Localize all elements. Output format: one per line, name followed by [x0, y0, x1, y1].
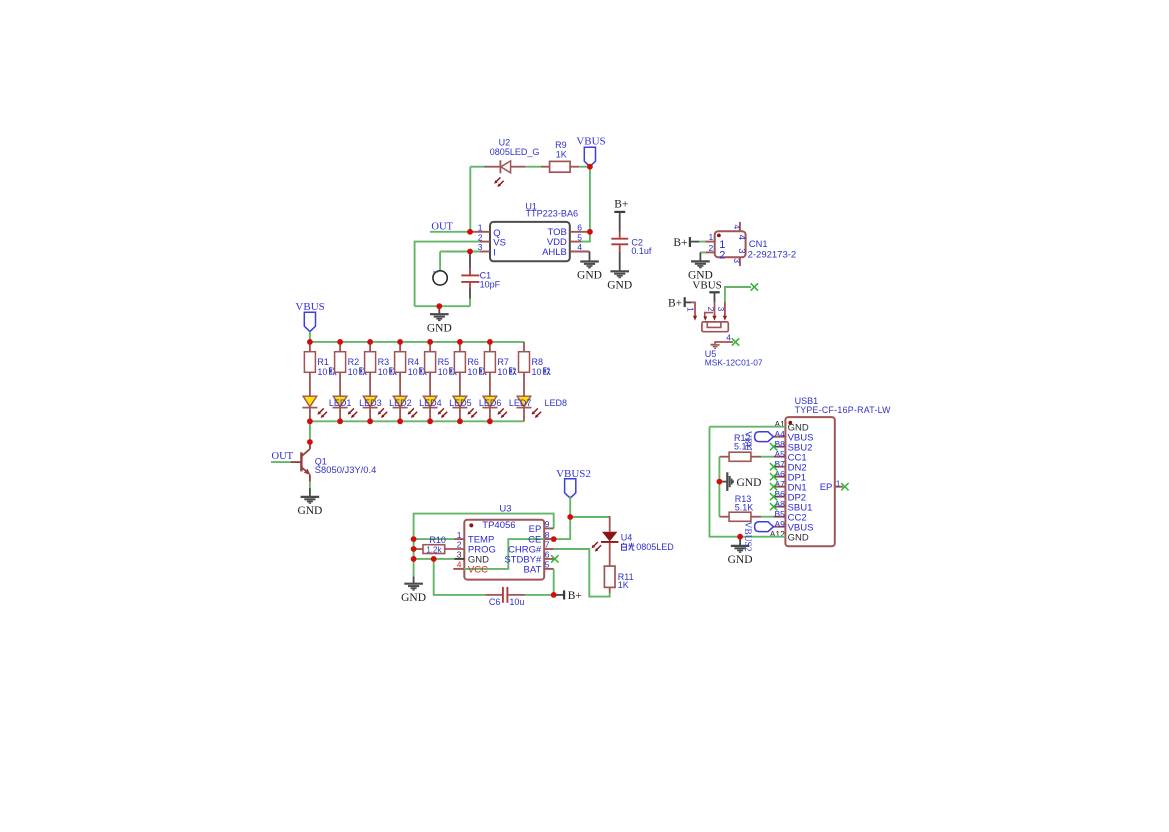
- svg-text:7: 7: [545, 540, 550, 550]
- svg-text:GND: GND: [728, 554, 753, 566]
- svg-text:2: 2: [457, 540, 462, 550]
- svg-text:EP: EP: [820, 482, 833, 493]
- svg-text:R7: R7: [497, 357, 509, 367]
- wire: OUT to base: [271, 461, 290, 463]
- LED7 emission arrows: [497, 408, 507, 418]
- svg-text:GND: GND: [577, 270, 602, 282]
- junction: [427, 418, 433, 424]
- svg-text:U3: U3: [499, 503, 511, 514]
- svg-text:U4: U4: [621, 532, 633, 542]
- resistor R9: [541, 161, 580, 172]
- no-connect X: [770, 463, 777, 470]
- junction: [307, 339, 313, 345]
- junction: [411, 536, 417, 542]
- U3 pin 7 CHRG#: [544, 548, 554, 550]
- USB1 pin A5: [773, 456, 785, 458]
- ground (CC rail, rotated): [719, 472, 733, 491]
- U1 pin 5: [570, 241, 581, 243]
- svg-text:VBUS: VBUS: [295, 301, 324, 313]
- resistor R1: [304, 342, 315, 396]
- svg-text:R5: R5: [438, 357, 450, 367]
- USB1 pin A9: [773, 526, 785, 528]
- wire: VBUS2 down: [569, 496, 571, 517]
- wire: gnd drop to bottom row: [434, 559, 486, 595]
- U3 pin 1 TEMP wire: [414, 538, 455, 540]
- svg-text:1: 1: [836, 478, 841, 488]
- switch U5 body: [702, 313, 728, 332]
- wire: VBUS2 node to CE: [554, 517, 571, 539]
- svg-text:10: 10: [438, 367, 448, 377]
- svg-text:4: 4: [457, 560, 462, 570]
- capacitor C1: [461, 253, 479, 299]
- svg-text:VBUS: VBUS: [576, 136, 605, 148]
- wire: CHRG# to R11: [554, 549, 610, 597]
- no-connect X: [732, 338, 739, 345]
- svg-text:TTP223-BA6: TTP223-BA6: [526, 209, 579, 219]
- junction: [427, 339, 433, 345]
- junction: [551, 592, 557, 598]
- LED4 emission arrows: [408, 408, 418, 418]
- wire: R12/R13 gnd rail: [718, 457, 720, 517]
- svg-text:LED1: LED1: [329, 398, 352, 408]
- svg-text:1: 1: [478, 223, 483, 233]
- wire: VBUS2 node to U4: [570, 516, 610, 518]
- svg-text:LED5: LED5: [449, 398, 472, 408]
- label R5 10ohm: [438, 357, 457, 377]
- svg-text:5.1K: 5.1K: [735, 503, 754, 513]
- wire: B+ to CN1 pin1: [699, 241, 705, 243]
- U3 pin 8 CE: [544, 538, 554, 540]
- svg-text:9: 9: [545, 519, 550, 529]
- junction: [457, 418, 463, 424]
- label R8 10ohm: [532, 357, 551, 377]
- chip U3 TP4056 box: [464, 520, 544, 580]
- svg-text:A4: A4: [774, 429, 785, 439]
- label R1 10ohm: [317, 357, 336, 377]
- junction: [337, 418, 343, 424]
- resistor R7: [484, 342, 495, 396]
- svg-text:LED6: LED6: [479, 398, 502, 408]
- wire: VCC to CE: [464, 539, 554, 569]
- U3 pin 9 EP: [544, 527, 554, 529]
- junction: [487, 339, 493, 345]
- U2 emission arrows: [494, 177, 504, 187]
- svg-text:0.1uf: 0.1uf: [631, 246, 652, 256]
- svg-text:8: 8: [545, 530, 550, 540]
- svg-text:4: 4: [726, 332, 731, 342]
- resistor R5: [425, 342, 436, 396]
- svg-text:1: 1: [457, 530, 462, 540]
- LED5 emission arrows: [438, 408, 448, 418]
- wire: CN1 pin2 to gnd: [700, 251, 705, 253]
- USB1 pin A8: [773, 506, 785, 508]
- no-connect X: [770, 503, 777, 510]
- wire: bus to Q1 collector: [309, 421, 311, 444]
- U1 pin 3: [480, 251, 490, 253]
- svg-text:LED4: LED4: [419, 398, 442, 408]
- U3 pin 4: [453, 568, 464, 570]
- svg-text:BAT: BAT: [524, 564, 542, 575]
- wire: U2 loop left vertical: [469, 167, 471, 232]
- svg-text:10: 10: [348, 367, 358, 377]
- LED6: [452, 396, 467, 421]
- USB1 pin B6: [773, 496, 785, 498]
- U3 pin 3 wire: [414, 558, 455, 560]
- ground (USB1): [731, 537, 750, 552]
- connector CN1 2-292173-2: [715, 231, 746, 257]
- U3 pin 3: [454, 558, 464, 560]
- junction: [397, 339, 403, 345]
- svg-text:4: 4: [732, 225, 742, 230]
- junction: [467, 249, 473, 255]
- power flag B+ (C6): [554, 590, 582, 602]
- junction: [431, 556, 437, 562]
- LED5: [423, 396, 438, 421]
- svg-text:10: 10: [317, 367, 327, 377]
- svg-text:TYPE-CF-16P-RAT-LW: TYPE-CF-16P-RAT-LW: [795, 405, 892, 415]
- wire: VBUS node down to U1 pin6: [589, 167, 591, 232]
- svg-text:2: 2: [708, 243, 713, 253]
- junction: [457, 339, 463, 345]
- svg-text:LED2: LED2: [389, 398, 412, 408]
- ground (U1 C1): [430, 306, 449, 320]
- svg-text:GND: GND: [401, 592, 426, 604]
- LED8: [517, 396, 532, 421]
- svg-text:10pF: 10pF: [480, 280, 501, 290]
- svg-text:1: 1: [708, 232, 713, 242]
- svg-text:6: 6: [545, 550, 550, 560]
- svg-text:OUT: OUT: [272, 451, 294, 462]
- wire: R13 to CC2: [761, 516, 773, 518]
- svg-text:2-292173-2: 2-292173-2: [748, 249, 797, 260]
- svg-text:10: 10: [408, 367, 418, 377]
- power flag VBUS (array): [304, 312, 315, 331]
- svg-text:R4: R4: [408, 357, 420, 367]
- U1 pin 6: [570, 231, 590, 233]
- USB1 pin A4: [773, 436, 785, 438]
- junction: [436, 303, 442, 309]
- svg-text:R2: R2: [348, 357, 360, 367]
- junction: [551, 536, 557, 542]
- wire: C1 bottom to gnd row: [469, 299, 471, 307]
- label R2 10ohm: [348, 357, 367, 377]
- svg-text:B+: B+: [614, 199, 628, 211]
- junction: [737, 534, 743, 540]
- no-connect X: [841, 483, 848, 490]
- junction: [487, 418, 493, 424]
- resistor R10: [414, 545, 465, 554]
- svg-text:GND: GND: [607, 280, 632, 292]
- USB1 pin B7: [773, 466, 785, 468]
- CN1 pin 4 (top): [739, 222, 741, 231]
- no-connect X: [751, 283, 758, 290]
- svg-text:GND: GND: [297, 505, 322, 517]
- connector USB1 TYPE-CF-16P-RAT-LW box: [785, 417, 834, 546]
- resistor R8: [519, 342, 530, 396]
- wire: VS row to left rail: [415, 242, 480, 307]
- U3 pin 1: [454, 538, 464, 540]
- svg-text:10: 10: [532, 367, 542, 377]
- U5 pin 1: [691, 302, 697, 320]
- svg-text:B+: B+: [568, 590, 582, 602]
- wire: BAT down to B+ node: [553, 569, 555, 595]
- op-amp/chip U1 TTP223-BA6 box: [490, 222, 570, 261]
- svg-text:CN1: CN1: [749, 239, 768, 249]
- label R6 10ohm: [467, 357, 486, 377]
- svg-text:B+: B+: [668, 298, 682, 310]
- U4 emission arrows: [592, 542, 602, 552]
- U3 pin 5 BAT: [544, 568, 554, 570]
- U1 pin 1: [470, 231, 490, 233]
- transistor Q1 S8050: [290, 444, 310, 482]
- power flag VBUS2: [565, 479, 576, 498]
- svg-text:LED7: LED7: [509, 398, 532, 408]
- wire: A1 GND: [710, 426, 786, 428]
- resistor R3: [365, 342, 376, 396]
- no-connect X: [770, 473, 777, 480]
- ground (U3 rail): [404, 576, 423, 590]
- svg-text:AHLB: AHLB: [542, 247, 567, 258]
- net flag VBUS2 (A9): [755, 522, 774, 532]
- USB1 pin B5: [773, 516, 785, 518]
- junction: [567, 514, 573, 520]
- wire: LED row left segment: [470, 166, 486, 168]
- svg-text:3: 3: [736, 248, 747, 253]
- junction: [337, 339, 343, 345]
- wire: gnd row: [415, 305, 470, 307]
- junction: [587, 164, 593, 170]
- junction: [307, 418, 313, 424]
- svg-text:5: 5: [545, 560, 550, 570]
- USB1 pin A6: [773, 476, 785, 478]
- LED U4: [601, 516, 618, 566]
- U5 pin 2: [712, 302, 716, 321]
- capacitor C6: [485, 587, 525, 603]
- svg-text:5.1K: 5.1K: [734, 442, 753, 452]
- wire: OUT stub: [430, 231, 470, 233]
- svg-text:B5: B5: [774, 509, 785, 519]
- svg-text:2: 2: [706, 307, 715, 312]
- LED3: [363, 396, 378, 421]
- junction: [367, 418, 373, 424]
- capacitor C2: [611, 213, 628, 271]
- svg-text:VBUS: VBUS: [692, 280, 721, 292]
- LED3 emission arrows: [378, 408, 388, 418]
- svg-text:2: 2: [719, 249, 725, 261]
- wire: emitter to gnd: [309, 482, 311, 488]
- svg-text:VBUS2: VBUS2: [742, 522, 752, 552]
- svg-text:VCC: VCC: [468, 564, 488, 575]
- wire: R9 to VBUS node: [579, 166, 590, 168]
- ground (U1 pin4): [580, 252, 599, 268]
- CN1 pin 2: [705, 251, 714, 253]
- CN1 pin 3 (bottom): [739, 257, 741, 266]
- USB1 pin A7: [773, 486, 785, 488]
- junction: [717, 479, 723, 485]
- junction: [411, 556, 417, 562]
- svg-text:EP: EP: [529, 524, 542, 535]
- LED1 emission arrows: [317, 408, 327, 418]
- svg-text:S8050/J3Y/0.4: S8050/J3Y/0.4: [315, 464, 377, 475]
- svg-text:6: 6: [577, 223, 582, 233]
- svg-text:4: 4: [736, 235, 747, 240]
- no-connect X: [770, 443, 777, 450]
- resistor R4: [395, 342, 406, 396]
- wire: pin3 row: [440, 251, 480, 253]
- svg-text:3: 3: [732, 258, 742, 263]
- LED U2 (0805LED_G): [485, 160, 526, 173]
- svg-text:A9: A9: [774, 519, 785, 529]
- U1 pin 4: [570, 251, 590, 253]
- svg-text:R8: R8: [532, 357, 544, 367]
- junction: [411, 546, 417, 552]
- wire: down to pin5 and left: [580, 232, 590, 242]
- svg-text:1: 1: [686, 307, 695, 312]
- LED2: [333, 396, 348, 421]
- svg-text:1.2k: 1.2k: [426, 545, 442, 554]
- svg-text:GND: GND: [427, 322, 452, 334]
- LED4: [393, 396, 408, 421]
- svg-text:4: 4: [577, 242, 582, 252]
- svg-text:R3: R3: [378, 357, 390, 367]
- CN1 pin 1: [705, 241, 714, 243]
- LED6 emission arrows: [467, 408, 477, 418]
- LED1: [302, 396, 317, 421]
- wire: to touch pad: [439, 252, 441, 271]
- power flag VBUS: [584, 147, 595, 166]
- svg-text:MSK-12C01-07: MSK-12C01-07: [705, 357, 763, 367]
- wire: top bus: [310, 341, 524, 343]
- wire: bottom bus: [310, 420, 524, 422]
- ground (CN1): [691, 252, 710, 267]
- svg-text:GND: GND: [737, 477, 762, 489]
- svg-text:A5: A5: [774, 449, 785, 459]
- wire: LED to R9: [525, 166, 540, 168]
- svg-text:R1: R1: [317, 357, 329, 367]
- wire: gnd left loop: [710, 427, 786, 537]
- wire: VBUS to top bus: [309, 332, 311, 342]
- svg-text:GND: GND: [788, 533, 809, 544]
- LED2 emission arrows: [348, 408, 358, 418]
- svg-text:10: 10: [378, 367, 388, 377]
- svg-text:LED3: LED3: [359, 398, 382, 408]
- wire: C6 to B+ node: [525, 594, 554, 596]
- svg-text:U2: U2: [499, 138, 511, 148]
- svg-text:LED8: LED8: [545, 398, 568, 408]
- label R3 10ohm: [378, 357, 397, 377]
- U5 pin 4: [711, 342, 733, 348]
- junction: [397, 418, 403, 424]
- svg-text:B+: B+: [673, 237, 687, 249]
- no-connect X: [551, 555, 558, 562]
- svg-text:0805LED: 0805LED: [636, 542, 674, 552]
- svg-text:1K: 1K: [618, 580, 629, 590]
- svg-text:C6: C6: [489, 597, 501, 607]
- svg-text:1K: 1K: [556, 149, 567, 159]
- svg-text:R10: R10: [429, 535, 446, 545]
- no-connect X: [770, 493, 777, 500]
- resistor R2: [335, 342, 346, 396]
- svg-text:I: I: [493, 248, 496, 259]
- ground (C2): [610, 271, 629, 277]
- svg-text:10: 10: [467, 367, 477, 377]
- svg-text:10: 10: [497, 367, 507, 377]
- resistor R11: [604, 566, 615, 593]
- USB1 pin EP: [835, 486, 843, 488]
- LED7: [482, 396, 497, 421]
- junction: [587, 229, 593, 235]
- ground (Q1): [301, 488, 320, 503]
- U5 pin 3: [723, 302, 727, 321]
- wire: R12 to CC1: [761, 456, 773, 458]
- U1 pin 2: [480, 241, 490, 243]
- svg-text:3: 3: [716, 307, 725, 312]
- svg-text:R6: R6: [467, 357, 479, 367]
- resistor R6: [454, 342, 465, 396]
- svg-text:0805LED_G: 0805LED_G: [490, 147, 540, 157]
- svg-text:5: 5: [577, 232, 582, 242]
- junction: [367, 339, 373, 345]
- net flag VBUS (A4): [755, 432, 774, 442]
- label R7 10ohm: [497, 357, 516, 377]
- resistor R13: [719, 512, 761, 521]
- touch pad circle: [433, 271, 447, 285]
- junction: [467, 229, 473, 235]
- USB1 pin B8: [773, 446, 785, 448]
- junction: [307, 439, 313, 445]
- wire: U3 gnd rail + top loop: [414, 514, 554, 577]
- label white-light 0805LED: [622, 542, 675, 552]
- svg-text:10u: 10u: [509, 597, 524, 607]
- wire: VBUS side to X: [725, 287, 751, 302]
- resistor R12: [719, 452, 761, 461]
- label R4 10ohm: [408, 357, 427, 377]
- LED8 emission arrows: [532, 408, 542, 418]
- svg-text:TP4056: TP4056: [482, 520, 515, 531]
- U3 pin 6 STDBY#: [544, 558, 554, 560]
- no-connect X: [770, 483, 777, 490]
- svg-text:3: 3: [457, 550, 462, 560]
